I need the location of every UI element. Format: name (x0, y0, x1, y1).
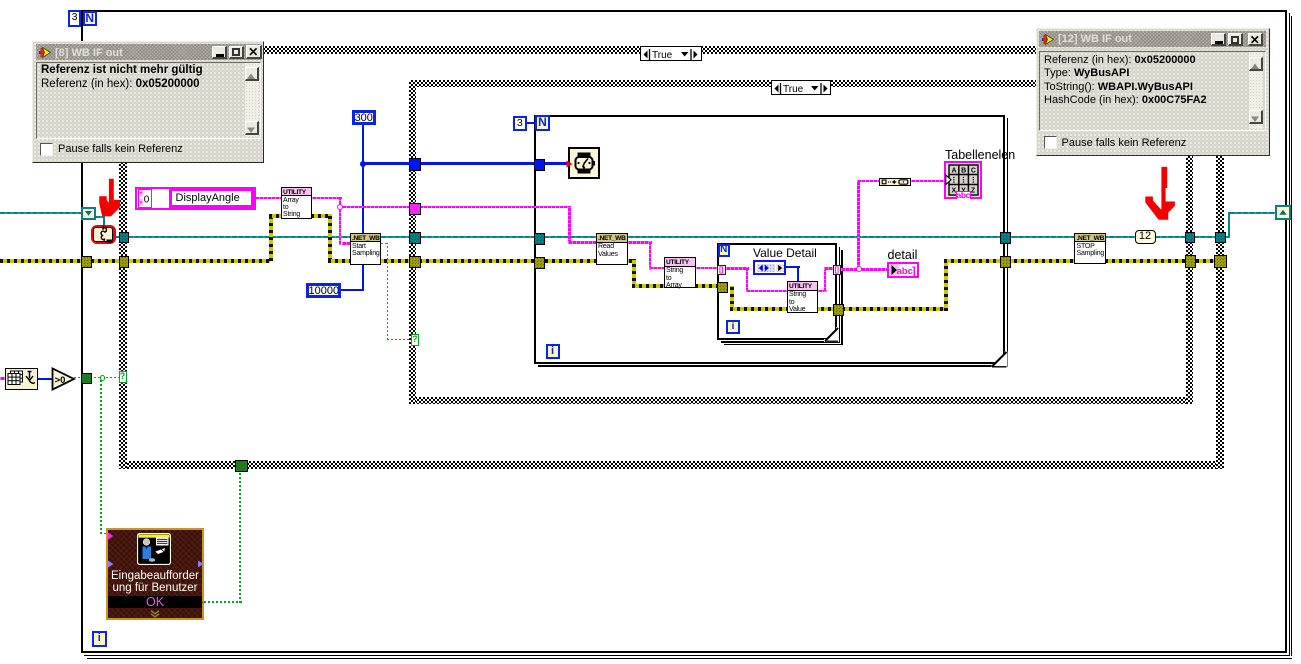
tunnel teal on middle loop right (1000, 232, 1012, 245)
wire teal vertical into breakpoint icon (103, 216, 105, 226)
tunnel auto-index [] inner loop right (833, 265, 842, 275)
probe window [12] title text (1058, 33, 1132, 45)
wire pink string-to-array out to [] tunnel (696, 267, 718, 270)
array index display (138, 189, 153, 208)
middle for loop border (534, 115, 1005, 364)
wait ms clock icon (568, 147, 600, 179)
probe window [12] text line 2 (1044, 67, 1129, 79)
wire pink junction ring 2 (856, 266, 862, 272)
wire olive down after read values (632, 259, 636, 288)
red annotation arrow right (1143, 161, 1185, 223)
case structure B left border (409, 80, 416, 404)
probe window [12] titlebar icon (1042, 33, 1055, 46)
wire green vertical up to case A bottom tunnel (239, 469, 241, 603)
wire pink read values out (628, 241, 652, 244)
string array constant DisplayAngle outer shell (135, 187, 256, 210)
probe window [8] scrollbar up button (245, 67, 259, 81)
svg-text:0: 0 (143, 194, 149, 205)
express vi input arrow pink (107, 532, 114, 540)
outer for loop shadow right 1 (1289, 13, 1291, 655)
tunnel green on case A bottom (235, 460, 248, 472)
utility array to string node (281, 187, 313, 219)
probe window [12] WB IF out (1036, 28, 1270, 157)
svg-text:B: B (961, 167, 966, 174)
wire green start sampling out (381, 243, 389, 245)
svg-text:True: True (652, 50, 673, 61)
inner loop N terminal (718, 244, 731, 257)
label Value Detail (753, 246, 817, 260)
probe window [12] minimize button (1211, 33, 1226, 46)
shift register left (down arrow) (81, 207, 96, 220)
wire pink vertical down inside inner loop (746, 267, 749, 292)
probe number tag 12 (1135, 230, 1156, 244)
tunnel pink on case B left (409, 203, 421, 215)
probe window [8] title text (55, 47, 123, 59)
wire blue junction dot (360, 161, 367, 168)
wire olive bump up segment (269, 214, 273, 261)
wire green ok out of express vi (204, 601, 242, 603)
case structure A right border (1216, 46, 1224, 469)
case structure A left border (119, 46, 127, 469)
horizontal scrollbar control in inner loop (753, 260, 786, 276)
probe window [12] maximize button (1228, 33, 1243, 46)
wire blue 3 to N middle loop (527, 122, 536, 125)
array grid node at left edge (5, 368, 38, 390)
wire olive down inside inner loop (730, 286, 734, 311)
svg-text:>0: >0 (55, 374, 66, 385)
wire pink displayangle to utility (255, 197, 282, 200)
probe window [8] WB IF out (32, 41, 264, 163)
greater than 0 node (51, 367, 76, 391)
outer for loop shadow bottom 1 (84, 655, 1290, 657)
numeric constant 300 (352, 110, 377, 126)
wire olive bump top run under utility node (269, 214, 332, 218)
string indicator detail (887, 262, 919, 279)
tunnel olive on middle loop left (534, 257, 545, 269)
wire blue case B tunnel to middle loop tunnel (419, 162, 536, 165)
wire olive run to case A right tunnel (944, 259, 1225, 263)
wire green into selector B (387, 339, 411, 341)
tunnel blue on case B left (409, 158, 421, 171)
wire pink utility out (312, 197, 342, 200)
express vi right violet arrow (197, 560, 204, 568)
wire green vertical down to express vi (100, 380, 102, 534)
wire teal from left edge to shift register (0, 212, 81, 214)
case structure B right border (1186, 80, 1193, 404)
tunnel olive inner loop right (833, 304, 844, 316)
tunnel auto-index [] inner loop left (717, 265, 726, 275)
wire blue grid node to greater-than-0 (38, 378, 53, 381)
wire pink into string-to-array (649, 267, 664, 270)
wire blue middle tunnel to wait icon (543, 162, 569, 165)
wire pink into start sampling (342, 242, 351, 245)
wire blue 300 down to start sampling (362, 125, 365, 234)
express vi icon (137, 533, 171, 565)
probe window [8] text line 2 (41, 78, 200, 90)
case A selector label True (640, 46, 702, 61)
wire olive from inner tunnel to up-turn (842, 307, 948, 311)
tunnel olive inner loop left (717, 282, 728, 294)
wire teal vertical turn up near right (1228, 212, 1230, 238)
string element DisplayAngle (169, 188, 255, 208)
wire teal main run breakpoint icon to right (115, 236, 1229, 238)
wire pink [] tunnel to down-turn (726, 267, 749, 270)
inner for loop dog-ear corner (824, 327, 839, 342)
svg-text:Z: Z (970, 187, 975, 194)
wire pink into array-to-cluster node (857, 180, 879, 183)
wire teal shift register to breakpoint icon (95, 216, 104, 218)
middle loop i terminal (546, 344, 560, 360)
tunnel olive on case B right (1185, 255, 1196, 268)
express vi label text (106, 570, 204, 594)
outer for loop left border (81, 10, 83, 652)
probe window [8] checkbox label (58, 143, 183, 155)
array to cluster small node (879, 178, 911, 186)
wire pink vertical down to string-to-array (649, 241, 652, 270)
probe window [12] scrollbar track (1249, 52, 1263, 129)
wire pink junction ring (337, 204, 343, 210)
probe window [12] text line 3 (1044, 81, 1193, 93)
outer loop N terminal (83, 11, 98, 27)
wire pink vertical down to start sampling level (339, 197, 342, 245)
middle for loop dog-ear corner (991, 351, 1008, 368)
inner loop i terminal (726, 320, 740, 335)
tunnel teal on case A left (119, 232, 129, 244)
.NET_WB read values node (596, 233, 628, 265)
wire green into express vi prompt (100, 533, 107, 535)
.NET_WB start sampling node (350, 233, 382, 266)
wire pink into right [] tunnel (824, 267, 833, 270)
middle for loop shadow right (1007, 118, 1009, 367)
case structure A bottom border (119, 461, 1224, 469)
case A selector terminal ? (119, 371, 127, 383)
probe window [8] minimize button (212, 46, 227, 59)
probe window [12] text line 4 (1044, 94, 1207, 106)
label detail (888, 248, 918, 262)
wire pink branch to case B tunnel (342, 206, 411, 209)
red annotation arrow left (96, 176, 124, 220)
wire pink right [] tunnel to detail (841, 268, 887, 271)
probe window [12] scrollbar down button (1249, 110, 1263, 125)
tunnel olive on for loop left border (81, 256, 92, 268)
inner for loop shadow bottom 1 (721, 341, 841, 343)
utility string to value node (787, 281, 819, 313)
wire blue vertical into string-to-value top (797, 266, 799, 282)
outer for loop top border (81, 10, 1287, 12)
tunnel olive on middle loop right (1000, 256, 1012, 269)
probe window [8] title bar (36, 44, 261, 60)
express vi OK band (108, 596, 202, 609)
.NET_WB stop sampling node (1074, 233, 1106, 265)
wire blue from 10000 (341, 289, 364, 292)
tunnel teal on middle loop left (534, 233, 545, 245)
wire pink vertical down before read values (568, 206, 571, 244)
tunnel olive on case A left (119, 256, 129, 268)
utility string to array node (664, 257, 696, 288)
middle loop count constant 3 (513, 116, 527, 132)
outer for loop shadow right 2 (1291, 16, 1292, 656)
shift register right (up arrow) (1275, 205, 1291, 220)
probe window [12] text line 1 (1044, 54, 1196, 66)
tunnel green on for loop left border (81, 373, 92, 385)
case structure B bottom border (409, 397, 1193, 404)
express vi OK output arrow (197, 599, 204, 606)
probe window [8] content panel (36, 62, 261, 139)
tunnel teal on case A right (1215, 232, 1226, 244)
outer for loop shadow bottom 2 (87, 658, 1292, 659)
probe window [8] scrollbar down button (245, 121, 259, 135)
svg-text:C: C (970, 167, 975, 174)
case structure B top border (409, 80, 1193, 87)
probe window [8] maximize button (229, 46, 244, 59)
inner for loop shadow right 1 (839, 247, 841, 343)
svg-text:True: True (783, 84, 804, 95)
outer loop i terminal (92, 631, 108, 647)
wire olive vertical up at x945 (944, 259, 948, 311)
probe window [12] checkbox (1044, 136, 1057, 149)
probe window [8] text line 1 (41, 64, 203, 76)
wire green vertical down to selector B (387, 243, 389, 340)
tunnel blue on middle loop left (534, 159, 545, 171)
wire green boolean comparison to case selector (74, 377, 119, 379)
wire pink case B to down-turn (419, 206, 571, 209)
middle for loop shadow bottom (538, 365, 1009, 367)
tunnel olive on case B left (409, 256, 421, 268)
wire olive run to string-to-value (730, 307, 835, 311)
wire olive bump down segment (328, 214, 332, 261)
abc tag of table indicator (956, 191, 971, 200)
breakpoint-highlighted refnum icon (91, 225, 116, 245)
express vi left violet arrow (107, 560, 114, 568)
probe window [8] checkbox (40, 143, 53, 156)
wire pink into string-to-value (746, 290, 787, 293)
probe window [12] scrollbar up button (1249, 57, 1263, 72)
case structure A top border (119, 46, 1224, 54)
wire pink vertical up to right [] tunnel (824, 267, 827, 292)
express vi prompt user for input (106, 528, 204, 620)
wire pink string-to-value out (818, 290, 827, 293)
numeric constant 10000 (306, 283, 341, 298)
probe window [8] titlebar icon (39, 46, 52, 59)
probe window [12] content panel (1039, 51, 1266, 132)
wire error cluster olive from left edge (0, 259, 270, 263)
wire blue junction to case B tunnel (364, 162, 410, 165)
svg-text:abc: abc (896, 265, 912, 275)
inner for loop (Value Detail) border (717, 243, 837, 340)
inner for loop shadow bottom 2 (724, 344, 843, 345)
probe window [12] checkbox label (1062, 137, 1187, 149)
outer for loop right border (1285, 10, 1287, 652)
case B selector label True (771, 80, 832, 95)
wire olive run to read values (328, 259, 636, 263)
red coercion dot on wait icon (566, 160, 573, 168)
wire green junction ring (100, 375, 106, 381)
outer for loop bottom border (81, 651, 1287, 653)
tunnel teal on case B left (409, 232, 421, 244)
wire blue scrollbar to string-to-value (786, 266, 800, 268)
wire pink node to table indicator (911, 180, 947, 183)
tunnel teal on case B right (1185, 232, 1196, 244)
wire pink vertical up to small node (857, 180, 860, 270)
middle loop N terminal (535, 115, 550, 131)
wire pink into read values (568, 241, 596, 244)
inner for loop shadow right 2 (841, 250, 842, 345)
case B selector terminal ? (411, 334, 420, 346)
wire pink stub at left edge (0, 377, 6, 380)
outer loop count constant 3 (68, 10, 81, 27)
tunnel olive on case A right (1214, 255, 1227, 268)
wire teal to right shift register (1230, 212, 1277, 214)
svg-text:A: A (951, 167, 956, 174)
wire blue 10000 vertical up to node (362, 265, 365, 291)
probe window [12] title bar (1039, 31, 1266, 48)
probe window [12] close button (1248, 33, 1264, 47)
probe window [8] scrollbar track (245, 63, 259, 137)
probe window [8] close button (246, 45, 262, 59)
wire olive run to string-to-array and inner tunnel (632, 284, 719, 288)
svg-text:]: ] (912, 265, 916, 276)
table indicator icon (944, 161, 983, 200)
express vi bottom chevron strip (148, 610, 162, 618)
label Tabellenelen (945, 148, 1015, 162)
